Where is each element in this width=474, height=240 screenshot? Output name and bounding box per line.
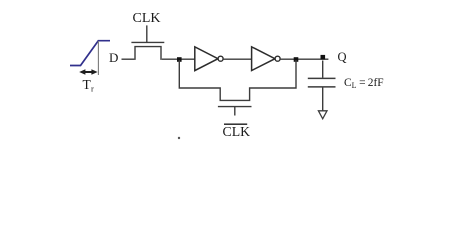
- svg-text:CLK: CLK: [133, 11, 161, 26]
- svg-text:D: D: [109, 50, 118, 65]
- transistor M2 gate bar: [218, 106, 252, 108]
- capacitor CL top stem: [322, 61, 324, 78]
- wire U1 to U2: [223, 58, 252, 60]
- node Q junction: [321, 55, 326, 60]
- node X junction: [177, 57, 182, 62]
- rise-time arrow: [79, 69, 97, 75]
- transistor M2 gate stem: [234, 107, 236, 116]
- inverter U1: [195, 47, 218, 71]
- transistor M1 gate stem: [146, 25, 148, 42]
- wire D to M1: [122, 58, 135, 60]
- svg-text:Q: Q: [338, 50, 347, 64]
- rise-time marker line: [97, 41, 99, 75]
- wire U2 to output Q: [280, 58, 328, 60]
- feedback wire with M2 terminals: [179, 60, 296, 100]
- ground: [318, 111, 327, 119]
- capacitor CL bottom plate: [308, 86, 336, 88]
- node Y junction: [294, 57, 299, 62]
- svg-text:r: r: [91, 84, 94, 94]
- inverter U2 bubble: [275, 56, 280, 61]
- transistor M1 channel/terminals: [135, 47, 161, 60]
- inverter U1 bubble: [218, 56, 223, 61]
- input ramp waveform: [70, 41, 110, 66]
- svg-text:C: C: [344, 77, 352, 89]
- label CLKbar overline: [224, 123, 247, 125]
- stray dot: [178, 137, 180, 139]
- svg-text:= 2fF: = 2fF: [357, 77, 384, 89]
- wire M1 to inverter U1: [162, 58, 195, 60]
- transistor M1 gate bar: [131, 41, 164, 43]
- svg-text:CLK: CLK: [223, 124, 251, 139]
- capacitor CL top plate: [308, 77, 336, 79]
- inverter U2: [252, 47, 275, 71]
- capacitor CL bottom stem: [322, 88, 324, 111]
